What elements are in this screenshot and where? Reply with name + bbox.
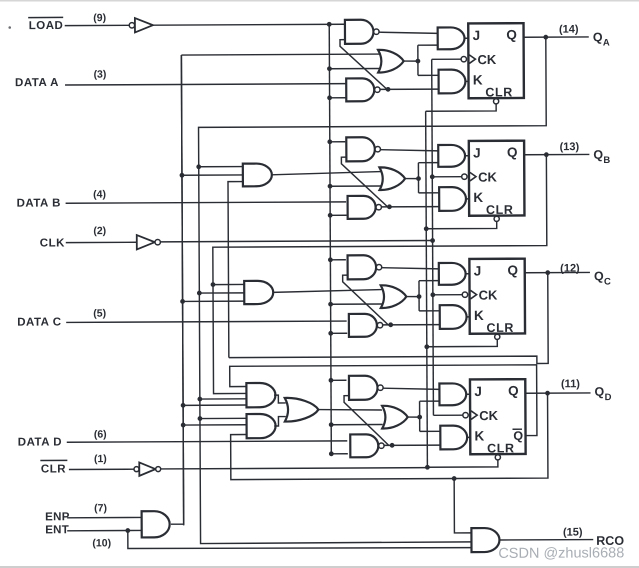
node stage A OR out (415, 59, 420, 64)
svg-text:(13): (13) (560, 141, 580, 153)
and-gate stage B J (438, 145, 465, 167)
svg-text:DATA D: DATA D (18, 436, 62, 448)
flip-flop UA CK bubble (461, 56, 466, 61)
wire ENP (67, 516, 142, 518)
svg-text:CSDN @zhusl6688: CSDN @zhusl6688 (498, 545, 624, 562)
nand-gate stage C bottom (349, 314, 377, 337)
wire UB Q output (524, 153, 589, 155)
flip-flop UD Qbar overline (513, 428, 522, 430)
wire stage C diagonal feedback (343, 275, 389, 325)
node load bus stage B mid (328, 184, 333, 189)
wire stage B top NAND out to J gate (380, 149, 438, 151)
node load bus stage B top (327, 139, 332, 144)
wire stage D diagonal feedback (344, 395, 389, 445)
wire CLR to inverter (69, 468, 134, 470)
flip-flop UD box (470, 379, 526, 454)
node load bus stage A mid (327, 66, 332, 71)
scan speck (8, 26, 11, 29)
flip-flop UD CK arrow (471, 411, 477, 420)
wire RCO output (500, 539, 594, 541)
node load bus stage D bottom (329, 451, 334, 456)
node UC Q output (545, 270, 550, 275)
inverter U-load triangle (135, 18, 153, 32)
and-gate stage B K (439, 187, 466, 211)
scan border top (0, 0, 639, 2)
svg-text:(5): (5) (93, 308, 106, 320)
inverter U-clr output bubble (156, 467, 161, 472)
wire clock bus to stage D CK (433, 414, 462, 416)
node QA stage C (197, 291, 202, 296)
svg-text:Q: Q (506, 27, 517, 42)
wire stage B riser to J (417, 163, 419, 193)
wire combiner OR to stage D mid OR (318, 409, 382, 410)
svg-text:(7): (7) (94, 502, 107, 514)
svg-text:LOAD: LOAD (29, 20, 64, 32)
wire stage A riser J stub (418, 44, 438, 46)
node load bus stage D top (329, 378, 334, 383)
or-gate stage A (378, 50, 404, 73)
node stage B OR out (416, 176, 421, 181)
node ENT branch (125, 528, 130, 533)
svg-text:CLR: CLR (486, 203, 514, 217)
wire ENT (67, 529, 142, 531)
and-gate stage D lower carry (247, 414, 276, 438)
flip-flop UB CK arrow (470, 172, 476, 181)
svg-text:(3): (3) (94, 69, 107, 81)
svg-text:CLR: CLR (486, 321, 514, 335)
flip-flop UD CK bubble (463, 412, 468, 417)
flip-flop UA CK arrow (469, 55, 475, 64)
wire QB feedback from output drop (212, 155, 547, 394)
wire QD down to RCO gate (454, 478, 472, 532)
or-gate stage B (379, 167, 405, 190)
wire stage A top NAND out to J gate (379, 32, 438, 34)
wire QC up to stage B gate (228, 182, 244, 358)
inverter U-clr triangle (139, 462, 155, 475)
svg-text:DATA B: DATA B (17, 197, 61, 209)
wire DATA B (66, 202, 346, 203)
svg-text:(1): (1) (94, 453, 107, 465)
wire EN bus to stage A OR input (181, 53, 380, 56)
svg-text:ENT: ENT (45, 524, 69, 536)
wire inverted CLR to clear bus (161, 468, 427, 469)
wire enable to EN bus (169, 55, 184, 524)
wire QA to stage D upper gate (200, 398, 247, 400)
wire load bus to stage C OR (331, 303, 382, 305)
and-gate stage C K (440, 305, 467, 329)
svg-text:DATA A: DATA A (15, 77, 59, 89)
svg-text:CK: CK (477, 52, 496, 67)
svg-text:CK: CK (479, 288, 498, 303)
and-gate U-RCO (471, 528, 499, 552)
node UD Q output (545, 391, 550, 396)
svg-text:J: J (474, 263, 482, 278)
wire QA feedback from output drop (198, 37, 548, 543)
wire stage A diagonal feedback (340, 39, 387, 89)
svg-text:(12): (12) (560, 263, 580, 275)
nand bubble stage A top (374, 29, 379, 34)
wire CLK to inverter (66, 241, 137, 243)
wire CLK to clock bus (161, 241, 433, 242)
svg-text:Q: Q (594, 385, 604, 399)
wire load bus to stage D bottom NAND (331, 453, 347, 455)
wire stage C top NAND out to J gate (382, 267, 440, 269)
wire stage A K gate to FF (464, 80, 468, 82)
and-gate stage D J (439, 383, 466, 405)
wire stage D riser to J (419, 401, 421, 431)
clock bus (432, 59, 434, 415)
inverter U-clr input bubble (134, 467, 139, 472)
nand-gate stage D bottom (350, 434, 378, 457)
wire load bus to stage D OR (331, 423, 382, 425)
and-gate stage A J (438, 27, 465, 49)
node QD to RCO branch (452, 476, 457, 481)
node QA stage D lower (198, 416, 203, 421)
svg-text:ENP: ENP (45, 511, 70, 523)
wire UC Q output (525, 271, 590, 273)
wire LOAD to inverter (65, 24, 129, 26)
wire QA to stage C gate (199, 292, 245, 294)
nand-gate stage B top (346, 137, 375, 161)
svg-text:Q: Q (513, 429, 523, 443)
node load bus stage A bottom (327, 95, 332, 100)
nand bubble stage D top (378, 385, 383, 390)
svg-text:(15): (15) (563, 526, 583, 538)
wire stage C riser K stub (419, 310, 440, 312)
wire load bus to stage B top NAND (330, 141, 345, 143)
node stage D OR out (417, 415, 422, 420)
wire stage C OR out (406, 295, 419, 297)
svg-text:Q: Q (593, 148, 603, 162)
or-gate stage D (382, 406, 408, 429)
wire clock bus to stage A CK (432, 58, 461, 60)
node stage B bottom NAND out (387, 204, 392, 209)
node load bus stage C top (328, 257, 333, 262)
wire DATA C (66, 321, 346, 322)
svg-text:D: D (605, 392, 612, 403)
or-gate stage C (381, 285, 407, 308)
wire stage B diagonal feedback (341, 157, 387, 207)
or-gate stage D combiner (285, 398, 319, 422)
wire EN to stage D lower gate (183, 424, 247, 426)
svg-text:CLR: CLR (485, 85, 513, 99)
wire load bus to stage A bottom NAND (330, 97, 346, 99)
wire load bus to stage D top NAND (331, 379, 346, 381)
svg-text:Q: Q (594, 269, 604, 283)
wire stage A riser to J (417, 45, 419, 75)
LOAD overline (28, 16, 63, 18)
svg-text:K: K (475, 428, 485, 443)
wire UA Q output (524, 36, 589, 38)
svg-text:(10): (10) (92, 537, 111, 549)
and-gate stage D upper carry (246, 383, 275, 407)
flip-flop UC CK arrow (470, 290, 476, 299)
svg-text:B: B (603, 155, 610, 166)
node EN stage D upper (181, 403, 186, 408)
flip-flop UC CK bubble (462, 292, 467, 297)
wire stage D OR out (408, 416, 420, 418)
wire clock bus to stage C CK (433, 294, 462, 296)
node stage C bottom NAND out (388, 322, 393, 327)
node EN stage B (180, 173, 185, 178)
nand bubble stage B top (375, 146, 380, 151)
nand-gate stage A top (345, 20, 374, 44)
flip-flop UB CK bubble (462, 174, 467, 179)
wire stage C riser J stub (419, 280, 439, 282)
wire DATA A (65, 84, 345, 85)
wire UB CLR to clear bus (426, 221, 497, 228)
svg-text:A: A (603, 37, 610, 48)
flip-flop UA CLR bubble (493, 99, 498, 104)
wire stage B carry out to OR (271, 172, 381, 175)
and-gate stage C J (439, 263, 466, 285)
node QB stage C (211, 282, 216, 287)
wire stage D riser J stub (420, 400, 440, 402)
svg-text:K: K (473, 190, 483, 205)
nand-gate stage D top (349, 376, 378, 400)
wire stage B K gate to FF (465, 198, 469, 200)
wire QD feedback wrap to D gate and RCO (230, 393, 548, 479)
wire stage B OR out (405, 177, 419, 179)
nand bubble stage C bottom (377, 322, 382, 327)
nand bubble stage C top (376, 264, 381, 269)
wire UD Q output (525, 392, 590, 394)
svg-text:CLR: CLR (487, 441, 515, 455)
nand-gate stage B bottom (348, 196, 376, 219)
wire stage B riser J stub (418, 162, 438, 164)
node CLK feed joins bus (430, 238, 435, 243)
node load bus stage C bottom (328, 331, 333, 336)
svg-text:(11): (11) (561, 378, 580, 390)
node EN stage D lower (181, 423, 186, 428)
wire stage D top NAND out to J gate (383, 388, 440, 390)
node clear bus stage B (424, 226, 429, 231)
svg-text:CK: CK (479, 408, 498, 423)
node clock bus stage B (430, 174, 435, 179)
inverter U-clk output bubble (155, 239, 160, 244)
flip-flop UA box (468, 23, 524, 98)
load bus vertical (329, 24, 331, 453)
wire stage D K gate to FF (466, 436, 470, 438)
flip-flop UD CLR bubble (495, 455, 500, 460)
node QA stage B (196, 164, 201, 169)
flip-flop UB CLR bubble (494, 216, 499, 221)
flip-flop UB box (469, 141, 525, 216)
wire stage B J gate to FF (464, 155, 469, 157)
node UA Q output (543, 35, 548, 40)
svg-text:K: K (473, 72, 483, 87)
node stage C OR out (417, 294, 422, 299)
svg-text:(9): (9) (93, 12, 106, 24)
svg-text:Q: Q (507, 145, 518, 160)
node EN stage C (180, 299, 185, 304)
wire stage D bottom NAND out (384, 444, 441, 446)
svg-text:Q: Q (507, 263, 518, 278)
wire stage A J gate to FF (463, 37, 468, 39)
wire QB to stage C gate (213, 283, 245, 285)
wire DATA D (67, 441, 347, 442)
clear bus (426, 111, 428, 467)
node load bus stage B bottom (328, 213, 333, 218)
node stage A bottom NAND out (386, 87, 391, 92)
wire EN to stage D upper gate (183, 404, 247, 406)
nand bubble stage D bottom (379, 443, 384, 448)
wire D upper gate to combiner OR (274, 395, 286, 403)
svg-text:DATA C: DATA C (17, 316, 61, 328)
node load bus stage D mid (329, 422, 334, 427)
wire stage C carry out to OR (273, 290, 382, 293)
wire stage B bottom NAND out (381, 206, 439, 208)
svg-text:J: J (474, 384, 482, 399)
wire stage C K gate to FF (465, 316, 469, 318)
flip-flop UC box (469, 259, 525, 334)
node UB Q output (544, 152, 549, 157)
wire load bus to stage C top NAND (330, 259, 345, 261)
svg-text:Q: Q (508, 383, 519, 398)
wire QC feedback from output drop (228, 273, 548, 365)
svg-text:(14): (14) (559, 24, 579, 36)
svg-text:(6): (6) (94, 429, 107, 441)
wire D lower gate to combiner OR (274, 417, 286, 426)
and-gate stage D K (440, 426, 467, 450)
wire ENT to RCO gate (128, 529, 472, 549)
wire load bus to stage A OR (329, 67, 380, 69)
and-gate U-enable ENP*ENT (142, 511, 170, 537)
node stage D bottom NAND out (390, 443, 395, 448)
nand-gate stage A bottom (346, 78, 374, 101)
svg-text:C: C (604, 276, 611, 287)
node QA stage D upper (197, 397, 202, 402)
wire load bus to stage B bottom NAND (330, 214, 346, 216)
and-gate stage A K (439, 70, 466, 94)
node clear bus stage C (424, 344, 429, 349)
node clock bus stage C (430, 292, 435, 297)
svg-text:K: K (474, 308, 484, 323)
and-gate stage B carry (243, 164, 272, 187)
wire UD CLR to clear bus (427, 460, 498, 467)
wire load bus to stage C bottom NAND (331, 332, 347, 334)
svg-text:J: J (473, 145, 481, 160)
and-gate stage C carry (244, 281, 273, 304)
wire stage A OR out (404, 60, 419, 62)
wire stage D J gate to FF (465, 393, 470, 395)
wire EN to stage C gate (183, 300, 245, 302)
wire stage A bottom NAND out (380, 88, 439, 90)
inverter U-clk triangle (137, 235, 155, 249)
svg-text:CLK: CLK (40, 237, 65, 249)
wire stage C J gate to FF (464, 273, 469, 275)
wire QA to stage D lower gate (200, 417, 247, 419)
wire QA to stage B gate (199, 166, 244, 168)
node load bus stage A top (327, 22, 332, 27)
nand bubble stage B bottom (376, 204, 381, 209)
wire QD-bar feedback (230, 365, 537, 437)
svg-text:J: J (473, 28, 481, 43)
svg-text:Q: Q (593, 30, 603, 44)
svg-text:(4): (4) (93, 189, 106, 201)
nand bubble stage A bottom (375, 87, 380, 92)
inverter U-load input bubble (129, 23, 134, 28)
wire stage B riser K stub (419, 192, 440, 194)
scan border bottom (0, 566, 639, 568)
wire UA CLR to clear bus (426, 104, 497, 111)
svg-text:(2): (2) (93, 225, 106, 237)
svg-text:CK: CK (478, 170, 497, 185)
wire inverted LOAD to stage A NAND (153, 23, 344, 26)
enable bus vertical (181, 55, 183, 525)
wire stage C riser to J (418, 281, 420, 311)
wire EN to stage B gate (182, 174, 243, 176)
wire stage C bottom NAND out (382, 324, 439, 326)
wire UC CLR to clear bus (427, 339, 498, 346)
CLR overline (40, 459, 67, 461)
wire stage D riser K stub (420, 430, 441, 432)
wire stage A riser K stub (418, 74, 439, 76)
wire load bus to stage B OR (330, 185, 381, 187)
nand-gate stage C top (348, 255, 377, 279)
node clear bus bottom (425, 465, 430, 470)
node load bus stage C mid (328, 302, 333, 307)
flip-flop UC CLR bubble (495, 334, 500, 339)
wire clock bus to stage B CK (432, 176, 461, 178)
svg-text:CLR: CLR (41, 463, 66, 475)
